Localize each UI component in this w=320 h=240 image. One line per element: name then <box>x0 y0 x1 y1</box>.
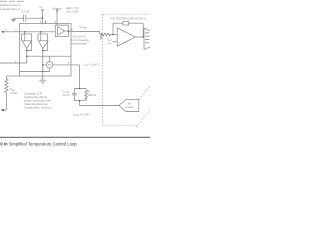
svg-text:00 in Simplified Temperature C: 00 in Simplified Temperature Control Loo… <box>0 141 77 146</box>
svg-text:Components” section.): Components” section.) <box>24 105 52 109</box>
svg-text:10 nF: 10 nF <box>63 93 70 97</box>
svg-text:Control: Control <box>125 106 133 109</box>
svg-text:V+: V+ <box>39 5 43 9</box>
svg-text:temperature: temperature <box>71 42 87 46</box>
svg-text:0.1 µF: 0.1 µF <box>22 10 30 14</box>
svg-text:PID CONTROLLER (NOTE 5): PID CONTROLLER (NOTE 5) <box>111 17 146 21</box>
svg-text:+: + <box>118 41 120 45</box>
svg-text:Low = Off: Low = Off <box>66 9 78 13</box>
svg-text:Enable: Enable <box>53 6 62 10</box>
svg-text:input: input <box>107 42 112 45</box>
svg-text:13 kΩ: 13 kΩ <box>10 91 17 95</box>
svg-text:100 kΩ: 100 kΩ <box>88 93 96 97</box>
svg-text:o the power pins of: o the power pins of <box>0 7 20 11</box>
svg-text:IOUT = 1 µA/°C: IOUT = 1 µA/°C <box>84 64 100 68</box>
svg-text:−: − <box>118 33 120 37</box>
svg-text:VTEMP = +1.45 V: VTEMP = +1.45 V <box>73 114 91 118</box>
